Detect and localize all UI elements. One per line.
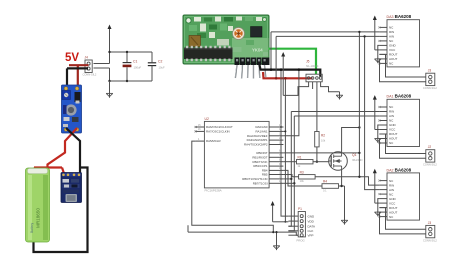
svg-text:C2: C2	[158, 60, 162, 64]
pin RB5	[269, 174, 283, 176]
svg-text:RB0/INT: RB0/INT	[256, 151, 267, 155]
svg-text:AIN: AIN	[389, 35, 394, 39]
svg-text:RB7/T1OSI: RB7/T1OSI	[253, 181, 268, 185]
svg-text:GND: GND	[389, 123, 397, 127]
svg-text:J4: J4	[85, 56, 89, 60]
wire black battery minus loop	[34, 168, 88, 253]
connector P1 PROG header	[298, 212, 305, 237]
pin DA2 NC	[379, 216, 387, 218]
svg-text:RIN: RIN	[389, 110, 394, 114]
wire J4 pin2	[94, 67, 110, 69]
power +5V	[271, 201, 275, 222]
TP4056 charger module photo	[61, 173, 82, 203]
resistor R3	[299, 175, 316, 179]
svg-text:DATA: DATA	[308, 224, 316, 228]
pin P1 VPP	[288, 234, 298, 236]
svg-text:IRLZ44N: IRLZ44N	[352, 158, 363, 162]
wire J5 pin2 stub	[312, 82, 314, 89]
wire power to P1 VDD	[273, 221, 289, 223]
svg-text:RIN: RIN	[389, 30, 394, 34]
svg-text:Q1: Q1	[352, 153, 357, 157]
wire red 5V feed	[69, 64, 89, 66]
pin DA1 ROUT	[379, 133, 387, 135]
svg-text:GND: GND	[308, 214, 316, 218]
ground below Q1	[341, 219, 348, 224]
svg-text:J5: J5	[306, 60, 310, 64]
pin RB4	[269, 169, 283, 171]
svg-text:R3: R3	[300, 170, 304, 174]
wire red down to boost module	[77, 65, 79, 86]
ground below cap rail	[106, 92, 113, 97]
svg-text:SIL-100-04: SIL-100-04	[306, 65, 319, 68]
svg-text:AIN: AIN	[389, 114, 394, 118]
pin DA3 NC	[379, 40, 387, 42]
connector J3 CONN-SIL2	[426, 225, 435, 237]
svg-text:DA3: DA3	[387, 15, 394, 19]
resistor R2 10k	[315, 132, 319, 147]
svg-text:RB5: RB5	[262, 173, 268, 177]
wire power to DA3 VCC	[375, 49, 380, 51]
ground DA2	[375, 211, 382, 216]
transistor Q1 IRLZ44N mosfet	[329, 152, 348, 171]
pin DA3 ROUT	[379, 53, 387, 55]
svg-text:10k: 10k	[300, 179, 305, 183]
svg-text:R2: R2	[321, 134, 325, 138]
wire R4 to Q1 source node	[339, 185, 345, 187]
svg-text:DA2: DA2	[387, 168, 394, 172]
IC DA3 BA6208	[387, 20, 420, 67]
wire black gnd feed	[67, 67, 88, 69]
capacitor C2	[151, 52, 153, 62]
pin P1 DATA	[288, 225, 298, 227]
wire top 5V rail	[110, 51, 153, 53]
wire riser DA1 AIN to P1 CLK	[288, 116, 294, 231]
svg-text:R1: R1	[298, 155, 302, 159]
wire red boost to battery	[48, 128, 78, 168]
svg-text:CONN-SIL2: CONN-SIL2	[423, 238, 437, 242]
svg-text:10k: 10k	[321, 139, 326, 143]
pin DA3 GND	[379, 44, 387, 46]
svg-text:J2: J2	[428, 145, 432, 149]
svg-text:0.1: 0.1	[323, 189, 327, 193]
svg-text:CLK: CLK	[308, 229, 314, 233]
pin DA2 GND	[379, 198, 387, 200]
pin P1 CLK	[288, 230, 298, 232]
svg-text:VCC: VCC	[389, 201, 396, 205]
ground DA3	[375, 58, 382, 63]
svg-text:MR18650: MR18650	[36, 208, 41, 228]
pin RB1/RX/DT	[269, 156, 283, 158]
svg-text:RA6/OSC2/CLKOUT: RA6/OSC2/CLKOUT	[206, 125, 233, 129]
wire DA2 AOUT loop to connector	[379, 212, 425, 234]
pin RA7/OSC1/CLKIN	[196, 130, 205, 132]
svg-text:BA6208: BA6208	[395, 94, 412, 99]
pin RB2/TX/CK	[269, 161, 283, 163]
pin DA1 NC	[379, 120, 387, 122]
wire RB2 to R1	[283, 161, 296, 163]
connector J3 CONN-SIL2	[426, 73, 435, 85]
svg-text:VPP: VPP	[308, 233, 314, 237]
wire DA1 AOUT loop to connector	[379, 139, 425, 159]
svg-text:AOUT: AOUT	[389, 137, 398, 141]
svg-text:RA4/T0CKI/CMP2: RA4/T0CKI/CMP2	[244, 143, 268, 147]
svg-text:RB2/TX/CK: RB2/TX/CK	[253, 160, 268, 164]
ground below P1 area	[273, 245, 280, 250]
svg-text:U2: U2	[205, 117, 209, 121]
pin RA1/AN1	[269, 130, 283, 132]
pin DA2 RIN	[379, 184, 387, 186]
svg-text:R4: R4	[323, 180, 327, 184]
ground right of J5	[336, 94, 343, 99]
wire DA1 GND hook	[378, 125, 380, 138]
svg-text:ROUT: ROUT	[389, 132, 398, 136]
pin RB6/T1OSO/T1CKI	[269, 178, 283, 180]
wire source node down	[344, 186, 346, 220]
resistor R4	[322, 184, 339, 189]
svg-text:RA5/MCLR: RA5/MCLR	[206, 139, 221, 143]
svg-text:BA6208: BA6208	[395, 14, 412, 19]
pin DA3 NC	[379, 62, 387, 64]
svg-text:CONN-SIL2: CONN-SIL2	[83, 73, 97, 77]
svg-text:BA6208: BA6208	[395, 167, 412, 172]
svg-text:GND: GND	[389, 197, 397, 201]
pin DA1 AOUT	[379, 138, 387, 140]
power flag DA1	[373, 95, 377, 129]
pin DA2 ROUT	[379, 207, 387, 209]
svg-text:RA7/OSC1/CLKIN: RA7/OSC1/CLKIN	[206, 130, 230, 134]
connector J4 CONN-SIL2	[85, 60, 92, 73]
battery 18650 photo	[26, 168, 50, 242]
pin RB7/T1OSI	[269, 182, 283, 184]
power flag at J5	[281, 52, 285, 95]
wire DA3 GND hook	[378, 45, 380, 58]
IC DA2 BA6208	[387, 173, 420, 220]
wire Q1 source down	[341, 170, 343, 186]
pin DA2 AOUT	[379, 211, 387, 213]
wire riser to P1 GND	[281, 70, 288, 217]
pin RA5/MCLR	[196, 140, 205, 142]
power flag DA2	[373, 169, 377, 203]
wire riser red to RA1 and P1 VDD	[284, 78, 286, 222]
wire Q1 drain to rail	[342, 128, 360, 153]
wire MCLR to P1 VPP rail	[192, 141, 273, 232]
wire RB0 long	[283, 152, 359, 154]
svg-text:CONN-SIL2: CONN-SIL2	[423, 163, 437, 167]
svg-text:CONN-SIL2: CONN-SIL2	[423, 86, 437, 90]
wire bottom rail to VPP	[188, 232, 298, 235]
boost converter module photo	[62, 85, 82, 133]
pin RA6/OSC2/CLKOUT	[196, 126, 205, 128]
wire vertical A	[358, 32, 360, 177]
wire J5 pin3 down to R2	[316, 82, 318, 132]
svg-text:RA0/AN0: RA0/AN0	[255, 125, 267, 129]
svg-text:RA3/AN3/CMP1: RA3/AN3/CMP1	[247, 138, 268, 142]
svg-text:GND: GND	[389, 44, 397, 48]
wire DA3 AIN line	[276, 35, 379, 37]
wire RB4 to R4	[283, 170, 322, 186]
wire DA3 RIN line	[271, 31, 379, 33]
pin DA1 RIN	[379, 111, 387, 113]
pin DA2 NC	[379, 180, 387, 182]
svg-text:RIN: RIN	[389, 183, 394, 187]
svg-text:C1: C1	[133, 60, 137, 64]
pin RA3/AN3/CMP1	[269, 139, 283, 141]
pin DA1 NC	[379, 106, 387, 108]
wire red from module to J5	[263, 72, 313, 78]
power flag DA3	[373, 16, 377, 50]
svg-text:AOUT: AOUT	[389, 57, 398, 61]
wire green data from module to J5	[269, 49, 317, 75]
wire J4 pin2 to gnd rail	[109, 68, 111, 81]
wire gnd rail horizontal	[110, 80, 153, 82]
pin DA1 NC	[379, 142, 387, 144]
pin P1 GND	[288, 215, 298, 217]
svg-text:5V: 5V	[65, 52, 79, 64]
svg-text:RA1/AN1: RA1/AN1	[255, 130, 267, 134]
pin RB0/INT	[269, 152, 283, 154]
wire hook to RA1	[283, 130, 285, 132]
pin DA3 VCC	[379, 49, 387, 51]
svg-text:VCC: VCC	[389, 128, 396, 132]
pin DA1 GND	[379, 124, 387, 126]
pin DA3 NC	[379, 26, 387, 28]
svg-text:RB6/T1OSO/T1CKI: RB6/T1OSO/T1CKI	[242, 177, 267, 181]
pin RA2/AN2/VREF	[269, 135, 283, 137]
wire riser DA3 in1 to black	[270, 32, 272, 70]
svg-text:AIN: AIN	[389, 188, 394, 192]
pin DA1 AIN	[379, 115, 387, 117]
pin RA4/T0CKI/CMP2	[269, 144, 283, 146]
ground stem at P1	[276, 232, 278, 245]
svg-text:VDD: VDD	[308, 219, 315, 223]
wire red into TP4056	[62, 168, 64, 174]
IC U2 PIC16F628A	[204, 121, 269, 187]
svg-text:ROUT: ROUT	[389, 53, 398, 57]
wire RB5 to R3	[283, 175, 298, 177]
wire red battery plus rail	[34, 166, 62, 168]
pin DA3 RIN	[379, 31, 387, 33]
pin DA3 AIN	[379, 35, 387, 37]
wire hook to RA0	[281, 126, 283, 128]
power flag +5V top-left	[108, 25, 112, 53]
wire DA1 ROUT loop to connector	[379, 134, 425, 154]
RF receiver module YK04 photo	[183, 15, 270, 79]
pin RB3/CCP1	[269, 165, 283, 167]
wire riser DA1 RIN to P1 DATA	[288, 112, 291, 227]
svg-text:J3: J3	[428, 221, 432, 225]
wire DA2 ROUT loop to connector	[379, 208, 425, 230]
wire rail down to J4 pin1	[109, 52, 111, 64]
resistor R1	[297, 160, 314, 164]
pin DA2 NC	[379, 193, 387, 195]
wire power to DA2 VCC	[375, 202, 380, 204]
pin P1 VDD	[288, 220, 298, 222]
pin DA2 AIN	[379, 189, 387, 191]
ground DA1	[375, 138, 382, 143]
pin RA0/AN0	[269, 126, 283, 128]
pin DA3 AOUT	[379, 58, 387, 60]
wire J4 pin1 to rail	[94, 63, 110, 65]
wire DA3 AOUT loop to connector	[379, 59, 425, 82]
wire J5 pin4 to ground	[321, 82, 340, 92]
svg-text:J3: J3	[428, 69, 432, 73]
wire DA1 AIN line	[294, 115, 379, 117]
wire RB7 extension	[283, 182, 294, 184]
wire vertical B	[365, 36, 380, 189]
svg-text:RB1/RX/DT: RB1/RX/DT	[252, 155, 267, 159]
wire RB6 extension	[283, 178, 291, 180]
svg-text:ROUT: ROUT	[389, 206, 398, 210]
svg-text:YK04: YK04	[252, 48, 263, 53]
svg-text:PROG: PROG	[297, 239, 305, 243]
pin DA1 VCC	[379, 129, 387, 131]
wire power to DA1 VCC	[375, 129, 380, 131]
wire riser DA3 in2 to red	[275, 36, 277, 78]
svg-text:Battery: Battery	[30, 222, 34, 233]
svg-text:PIC16F628A: PIC16F628A	[205, 189, 222, 193]
wire black boost to tp4056	[66, 128, 80, 168]
svg-text:P1: P1	[298, 207, 302, 211]
svg-text:AOUT: AOUT	[389, 210, 398, 214]
wire R2 bottom to gate net	[316, 147, 318, 162]
wire R1 to Q1 gate	[313, 161, 329, 163]
svg-text:DA1: DA1	[387, 95, 394, 99]
wire R3 to DA2 RIN	[315, 177, 379, 185]
wire DA1 RIN line	[291, 111, 379, 113]
IC DA1 BA6208	[387, 99, 420, 146]
capacitor C1 100uF electrolytic	[126, 52, 128, 62]
svg-text:10uF: 10uF	[159, 66, 165, 70]
wire gnd stem	[109, 81, 111, 93]
wire DA2 GND hook	[378, 199, 380, 212]
connector J5 SIL-100-04	[306, 74, 322, 82]
wire gnd stem	[339, 92, 341, 95]
wire J5 pin1 to power	[283, 82, 308, 96]
svg-text:100uF: 100uF	[134, 66, 142, 70]
wire riser module data	[283, 70, 299, 136]
wire DA3 ROUT loop to connector	[379, 54, 425, 77]
wire black from module to J5	[260, 65, 321, 77]
svg-text:VCC: VCC	[389, 48, 396, 52]
connector J2 CONN-SIL2	[426, 150, 435, 162]
pin DA2 VCC	[379, 202, 387, 204]
wire black down to boost module	[66, 68, 68, 86]
